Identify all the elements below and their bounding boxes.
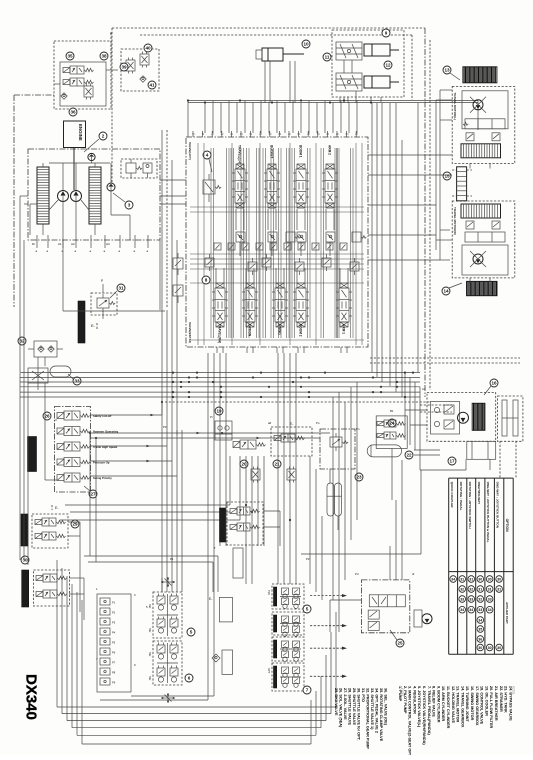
shuttle block [461,144,501,158]
wire [405,409,427,411]
svg-text:18. CONTROL VALVE: 18. CONTROL VALVE [480,686,484,725]
wire [343,60,345,73]
swing motor assembly (dashed box) [427,392,496,441]
balloon 27 [89,490,97,498]
internal horizontal gallery wires [190,206,364,208]
svg-text:36. SEL. VALVE (OE): 36. SEL. VALVE (OE) [384,688,388,726]
wire [300,103,302,134]
solenoid valve ch4 [64,458,80,467]
motor swash assembly [462,245,508,275]
svg-text:E-: E- [290,422,293,426]
svg-text:Dr: Dr [32,242,35,246]
wire [260,101,262,134]
svg-text:26. SOL. VALVE (5EA): 26. SOL. VALVE (5EA) [339,688,343,728]
spool section BOOM 2 [296,288,306,322]
solenoid valve ch5 [64,473,80,482]
svg-text:17: 17 [449,459,455,464]
svg-text:Pu: Pu [316,421,320,425]
wire main bus to cylinders [188,100,478,102]
svg-text:33: 33 [469,597,473,601]
solenoid valve manifold (5ch) [55,407,91,493]
svg-text:36: 36 [478,637,482,641]
svg-text:ONE-WAY : JOYSTICK BUTTON: ONE-WAY : JOYSTICK BUTTON [496,482,500,529]
svg-text:21. AIR BREATHER: 21. AIR BREATHER [494,686,498,721]
balloon 5 [187,628,195,636]
main pump P1 [58,191,69,202]
svg-text:10. ARM CYLINDER: 10. ARM CYLINDER [441,686,445,722]
relief valve [84,86,93,97]
balloon 15 [443,172,451,180]
svg-text:31. PTO: 31. PTO [361,688,365,702]
wire [44,357,46,366]
port [36,235,38,248]
pressure reducing valve (swing) [320,429,355,469]
svg-text:31: 31 [497,587,501,591]
svg-text:32: 32 [460,587,464,591]
balloon 14 [442,287,450,295]
wire horizontals valve to travel motors [368,204,436,206]
wire [263,510,280,512]
accumulator [50,366,71,377]
main horizontal bus wires [20,372,420,374]
travel pedal valve 1 [272,637,304,661]
svg-text:3. MAIN CONTROL VALVE(2-SEAT O: 3. MAIN CONTROL VALVE(2-SEAT OPT) [408,686,412,755]
wire pedal risers [207,353,209,546]
svg-text:10: 10 [303,42,309,47]
svg-text:B1: B1 [390,409,394,413]
dashed pilot to option [310,595,345,597]
valve mid small squares row [214,243,221,250]
wire pilot delivery line [62,240,64,311]
svg-text:ARM 1: ARM 1 [342,324,346,334]
relief valve pair [466,221,474,229]
balloon 23 [355,473,363,481]
svg-text:A1: A1 [58,242,62,246]
svg-text:12. HOLDING VALVE: 12. HOLDING VALVE [451,686,455,723]
travel gearbox hatch [467,281,498,295]
pilot pump [107,183,115,191]
balloon 9 [382,29,390,37]
svg-text:P6: P6 [112,651,116,655]
svg-text:30: 30 [488,646,492,650]
wire [220,103,222,134]
svg-text:QUICK COUPLER: QUICK COUPLER [450,482,454,509]
wire under swing [465,459,467,470]
pilot line boundary (dashed) top [112,27,425,29]
wire [308,101,310,134]
boom holding valve 1 [336,42,362,60]
E-box 1 [219,598,232,622]
svg-text:SW: SW [148,652,152,657]
load check valve [326,232,335,242]
left dash-dot boundary [13,95,15,307]
wire [300,242,302,256]
solenoid valve ch3 [64,442,80,451]
wire [159,240,161,310]
svg-text:5: 5 [306,607,309,612]
balloon 7 [303,686,311,694]
cushion valve box [271,427,312,456]
svg-text:41: 41 [149,83,155,88]
wire [204,103,206,134]
wire [245,268,247,283]
wire [110,32,112,34]
relief valve sub-box [121,159,157,178]
balloon 25 [396,639,404,647]
svg-text:31: 31 [118,286,124,291]
svg-text:34. OPT. PEDAL VALVE 2: 34. OPT. PEDAL VALVE 2 [375,688,379,733]
svg-text:SW: SW [148,676,152,681]
balloon 12 [384,61,392,69]
swing pilot solenoid cluster [376,416,407,449]
wire bottom long lines [56,560,58,707]
svg-text:33: 33 [74,379,80,384]
svg-text:40: 40 [145,46,151,51]
svg-text:2. PILOT PUMP: 2. PILOT PUMP [403,686,407,714]
wire [235,209,237,230]
balloon 35 [66,52,74,60]
dozer spool [369,595,405,607]
svg-text:30. SHUTTLE VALVE for OPT.: 30. SHUTTLE VALVE for OPT. [357,688,361,741]
shut-off valve [28,368,48,383]
svg-text:32: 32 [478,597,482,601]
wire [55,419,58,421]
pilot pressure reducing valve [97,298,109,308]
balloon 21 [273,460,281,468]
svg-text:35. ROTATING CLAMP VALVE: 35. ROTATING CLAMP VALVE [379,688,383,742]
ports [469,163,471,168]
boom holding valve 2 [336,73,362,91]
svg-text:TRV: TRV [267,590,271,595]
svg-text:OPTION: OPTION [505,519,509,533]
wire [332,103,334,134]
balloon 6 [185,674,193,682]
svg-text:38: 38 [101,54,107,59]
balloon 30 [21,556,29,564]
svg-text:16. SWING MOTOR: 16. SWING MOTOR [470,686,474,721]
svg-text:OPT: OPT [267,668,271,674]
svg-text:BOOM 2: BOOM 2 [299,324,303,337]
svg-text:8. RELIEF VALVE: 8. RELIEF VALVE [432,686,436,717]
svg-text:Pd: Pd [355,572,359,576]
main control valve (dash-dot boundary) [186,137,368,347]
wire [292,101,294,134]
wire [30,203,37,205]
balloon 33 [73,377,81,385]
svg-text:APPLIED PART: APPLIED PART [505,602,509,624]
svg-text:14: 14 [443,289,449,294]
gear pump [88,153,95,160]
relief valve pair [466,133,474,141]
svg-text:P3: P3 [112,621,116,625]
balloon 22 [405,451,413,459]
port [297,347,299,353]
regulator LH [37,167,49,224]
balloon 31 [117,284,125,292]
wire travel lines [440,89,452,91]
svg-text:P9: P9 [112,681,116,685]
balloon 17 [448,457,456,465]
svg-text:4. REGULATOR: 4. REGULATOR [412,686,416,714]
svg-text:36: 36 [70,110,76,115]
tiny arrows on pilot lines [147,445,151,448]
svg-text:Travel High Speed: Travel High Speed [93,445,118,449]
balloon 24 [388,419,396,427]
svg-text:STD: STD [510,686,515,694]
boom priority valve cluster [227,502,263,545]
svg-text:29. SHUTTLE VALVE: 29. SHUTTLE VALVE [352,688,356,725]
dozer motor [422,614,432,624]
svg-text:P7: P7 [112,661,116,665]
svg-text:25: 25 [397,641,403,646]
svg-text:31: 31 [478,587,482,591]
table applied-part circles [450,576,457,583]
option application table [448,478,450,654]
wire [316,103,318,134]
balloon 8 [202,276,210,284]
svg-text:13: 13 [444,68,450,73]
valve left-edge small valves [173,258,183,269]
last chance filter 1 [251,469,260,480]
svg-text:31: 31 [460,577,464,581]
svg-text:35: 35 [67,54,73,59]
wire [42,163,44,167]
relief pair [368,610,379,619]
proportional relief valve block B [34,570,70,606]
wire [329,469,331,483]
E-box 2 [222,650,233,674]
joystick valve (LH) lower [153,641,182,685]
wire delivery [62,202,64,235]
wire center risers extended [207,546,209,700]
svg-text:VALVE(BKT/H): VALVE(BKT/H) [188,322,192,343]
svg-text:ONE-WAY : JOYSTICK BUTTON w PE: ONE-WAY : JOYSTICK BUTTON w PEDAL [486,482,490,543]
load check valve [297,232,306,242]
wire [28,348,34,350]
svg-text:2: 2 [102,134,105,139]
wire left riser bus [161,130,163,430]
anti-inversion valve [431,401,460,434]
joystick valve (LH) upper [153,592,182,638]
wire [389,546,391,580]
svg-text:32. PROPORTIONAL GEAR PUMP: 32. PROPORTIONAL GEAR PUMP [366,688,370,749]
svg-text:P5: P5 [112,641,116,645]
balloon 2 [99,132,107,140]
negative control relief [286,232,295,242]
svg-text:TRAVEL MOTOR(L): TRAVEL MOTOR(L) [453,93,457,121]
black label (line filter) [78,301,85,343]
engine [64,121,86,148]
svg-text:33: 33 [460,597,464,601]
svg-text:7. TRAVEL PEDAL(PANDA): 7. TRAVEL PEDAL(PANDA) [427,686,431,735]
accumulator 2 [335,483,342,516]
wire [284,103,286,134]
solenoid valve block (breaker select) [54,41,111,109]
svg-text:19. OIL COOLER: 19. OIL COOLER [484,686,488,716]
wire [228,101,230,134]
svg-text:P: P [101,279,103,283]
riser rect [233,548,243,578]
dozer valve assembly (dash-dot) [361,580,409,633]
grease accumulator [367,445,401,457]
junction dots on buses [324,372,326,374]
wire long verticals center-right [332,397,334,600]
balloon 32 [18,337,26,345]
svg-text:17. SWING GEARBOX: 17. SWING GEARBOX [475,686,479,726]
shuttle valve block [215,421,232,440]
cross marker top [161,581,175,583]
arm cylinder [262,48,283,61]
svg-text:A3: A3 [106,242,110,246]
wire [339,97,341,103]
svg-text:SW: SW [148,604,152,609]
svg-text:E-: E- [209,597,212,601]
joystick valve (RH) lower [272,612,304,635]
wire pump suction [49,162,110,164]
dashed pilot bus [370,357,520,359]
solenoid valve ch2 [64,427,80,436]
svg-text:3: 3 [128,203,131,208]
svg-text:30: 30 [497,577,501,581]
black label A [21,514,28,546]
svg-text:ENGINE: ENGINE [78,124,83,141]
travel pedal valve 2 [272,663,304,691]
load check valve [268,232,277,242]
wire [296,209,298,230]
wire [356,101,358,134]
svg-text:22. STRAINER: 22. STRAINER [499,686,503,712]
svg-text:32: 32 [469,587,473,591]
main relief valve [203,180,215,194]
wire [68,521,80,523]
svg-text:P1: P1 [112,601,116,605]
boom cylinder 1 [364,44,390,56]
wire [325,209,327,230]
balloon 13 [443,66,451,74]
svg-text:13. TRAVEL MOTOR: 13. TRAVEL MOTOR [456,686,460,723]
svg-text:8: 8 [205,278,208,283]
wire swash link [49,200,58,210]
wire [276,101,278,134]
svg-text:14. TRAVEL GEARBOX: 14. TRAVEL GEARBOX [460,686,464,728]
wire pilot line [111,214,130,216]
turning joint [457,167,467,201]
wire [239,242,241,256]
svg-text:ARM 2: ARM 2 [328,145,332,155]
svg-text:BUCKET: BUCKET [270,145,274,158]
wire [252,103,254,134]
regulator RH [89,167,101,224]
svg-text:27: 27 [90,492,96,497]
svg-text:A1: A1 [422,387,426,391]
svg-text:P8: P8 [112,671,116,675]
svg-text:5: 5 [190,630,193,635]
wire [268,103,270,134]
balloon 4 [203,151,211,159]
svg-text:34: 34 [460,608,464,612]
joystick connector manifold [97,594,131,692]
svg-text:ROTATING : PEDAL: ROTATING : PEDAL [459,482,463,511]
cushion box (dashed) [498,396,523,441]
svg-text:21: 21 [274,462,280,467]
balloon 3 [125,201,133,209]
svg-text:TRAVEL(RH): TRAVEL(RH) [218,324,222,343]
svg-text:34: 34 [451,577,455,581]
svg-text:30: 30 [488,577,492,581]
svg-text:DX340: DX340 [23,674,40,720]
check valve [140,76,146,82]
svg-text:15. TURNING JOINT: 15. TURNING JOINT [465,686,469,723]
wire [391,449,393,501]
wire [264,61,266,103]
motor swash assembly [462,91,508,129]
wire [267,209,269,230]
balloon 26 [43,412,51,420]
ports [469,278,471,283]
svg-text:30: 30 [478,577,482,581]
wire verticals right of valve [371,103,373,372]
svg-text:ROTATING : JOYSTICK SWITCH: ROTATING : JOYSTICK SWITCH [468,482,472,530]
balloon 11 [323,53,331,61]
check valve [61,93,67,99]
svg-text:11. BUCKET CYLINDER: 11. BUCKET CYLINDER [446,686,450,729]
wire [324,101,326,134]
wire pump to valve [160,195,186,197]
balloon 41 [148,81,156,89]
svg-text:30: 30 [497,646,501,650]
svg-text:30: 30 [478,646,482,650]
svg-text:27. 2-SOL. VALVE: 27. 2-SOL. VALVE [343,688,347,720]
balloon 16 [490,379,498,387]
svg-text:Pn: Pn [356,427,360,431]
wire [79,522,81,612]
black label (solenoid manifold) [28,437,37,472]
balloon 29 [71,520,79,528]
svg-text:a8: a8 [268,421,272,425]
wire [212,101,214,134]
wire pump left ports [20,195,28,197]
main pump assembly (dash-dot box) [28,149,160,240]
wire [296,268,298,283]
diamond junction [212,654,220,662]
spool section TRAVEL(RH) [215,288,225,322]
svg-text:6. JOYSTICK VALVE(RH/PANDA): 6. JOYSTICK VALVE(RH/PANDA) [422,686,426,745]
svg-text:30: 30 [22,558,28,563]
svg-text:4: 4 [206,153,209,158]
svg-text:33: 33 [488,597,492,601]
accumulator 1 [327,483,334,516]
make-up valve block [467,441,496,459]
counterbalance spool [465,119,505,129]
wire [289,61,291,103]
svg-text:22: 22 [406,453,412,458]
wire mid verticals to pedals [245,456,247,546]
svg-text:P4: P4 [112,631,116,635]
counterbalance spool [465,232,505,242]
wire [330,599,361,601]
svg-text:12: 12 [385,63,391,68]
svg-text:E-: E- [91,323,96,328]
balloon 39 [120,63,128,71]
svg-text:Safety Cut-off: Safety Cut-off [93,414,111,418]
balloon 20 [240,460,248,468]
svg-text:P2: P2 [112,611,116,615]
svg-text:TRAVEL MOTOR(R): TRAVEL MOTOR(R) [453,207,457,235]
svg-text:16: 16 [491,381,497,386]
black label B [22,570,29,607]
wire right bottom risers [309,456,311,584]
pilot boundary right (dash-dot) [424,28,426,397]
